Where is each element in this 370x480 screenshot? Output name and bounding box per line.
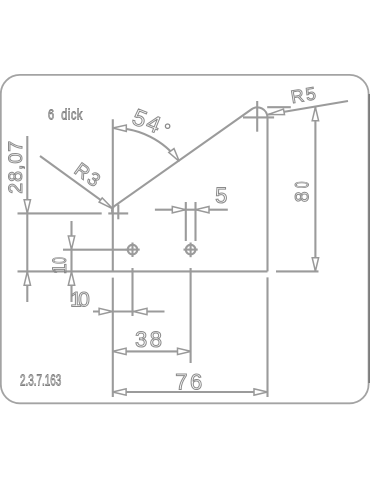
svg-text:8: 8	[291, 191, 313, 202]
svg-text:2.3.7.163: 2.3.7.163	[20, 371, 61, 389]
svg-text:0: 0	[291, 181, 313, 188]
svg-text:28,07: 28,07	[5, 140, 27, 194]
svg-text:5: 5	[215, 183, 227, 208]
svg-text:38: 38	[135, 327, 164, 352]
svg-text:0: 0	[78, 288, 90, 311]
svg-text:76: 76	[175, 369, 204, 394]
svg-text:0: 0	[49, 257, 71, 264]
svg-text:6 dick: 6 dick	[48, 106, 83, 123]
svg-text:1: 1	[49, 263, 71, 274]
